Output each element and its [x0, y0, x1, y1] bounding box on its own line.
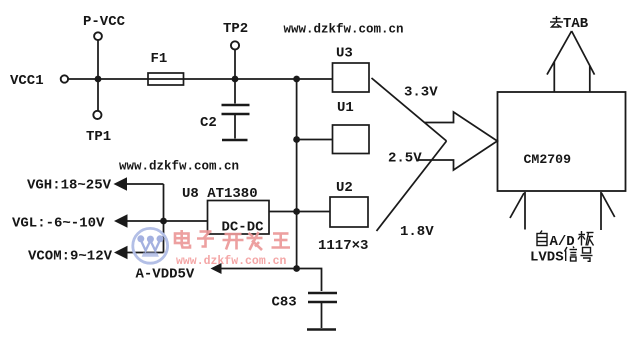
node block arrow to CM2709 [419, 112, 498, 170]
op-amp U8 DC-DC box [208, 201, 270, 235]
wire VGH [127, 183, 164, 185]
wire VCOM [127, 252, 164, 254]
node arrow VGH [114, 177, 128, 191]
node TAB arrow [547, 31, 595, 92]
node VCC1 terminal [61, 75, 68, 82]
svg-text:U3: U3 [336, 46, 353, 62]
wire diagonal 3.3V [372, 78, 447, 141]
node P-VCC terminal [94, 32, 102, 40]
wire A-VDD5V [221, 268, 297, 270]
junction bus U2 [293, 208, 300, 215]
node arrow A-VDD5V [211, 263, 222, 274]
logo ring [133, 228, 168, 263]
junction TP2 [232, 76, 239, 83]
wire main horizontal VCC1 to U3 [68, 78, 333, 80]
junction VGL [160, 218, 167, 225]
wire P-VCC to TP1 vertical [97, 40, 99, 111]
svg-text:U8 AT1380: U8 AT1380 [182, 186, 258, 202]
capacitor C2 [222, 105, 250, 114]
svg-text:TAB: TAB [563, 16, 589, 32]
svg-text:VCOM:9~12V: VCOM:9~12V [28, 249, 113, 265]
svg-text:www.dzkfw.com.cn: www.dzkfw.com.cn [284, 23, 404, 37]
svg-text:P-VCC: P-VCC [83, 14, 126, 30]
node arrow VGL [114, 214, 128, 228]
svg-text:U2: U2 [336, 180, 353, 196]
svg-text:TP2: TP2 [223, 21, 248, 37]
junction bus top [293, 76, 300, 83]
svg-text:LVDS: LVDS [530, 250, 564, 266]
node TP2 terminal [231, 41, 239, 49]
label TAB [550, 16, 589, 32]
wire TP2 drop [234, 49, 236, 79]
svg-text:C2: C2 [200, 115, 217, 131]
node TP1 terminal [93, 111, 101, 119]
svg-text:3.3V: 3.3V [404, 85, 438, 101]
wire VGH to VCOM vertical [163, 184, 165, 253]
svg-text:1.8V: 1.8V [400, 224, 434, 240]
wire bus to U1 [297, 139, 333, 141]
label LVDS信号 [530, 247, 593, 266]
wire C2 top lead [234, 79, 236, 104]
svg-text:F1: F1 [151, 51, 168, 67]
label 自A/D板 [537, 231, 594, 251]
fuse F1 [148, 73, 184, 85]
wire DC-DC to U2 [269, 211, 330, 213]
svg-text:1117×3: 1117×3 [318, 238, 368, 254]
svg-text:www.dzkfw.com.cn: www.dzkfw.com.cn [119, 160, 239, 174]
op-amp U3 box [333, 63, 370, 92]
svg-text:VGL:-6~-10V: VGL:-6~-10V [12, 216, 105, 232]
wire C83 jog [297, 269, 322, 292]
wire vertical bus [296, 79, 298, 269]
wire C83 bottom lead [321, 302, 323, 328]
capacitor C83 [308, 293, 337, 302]
svg-text:C83: C83 [272, 295, 297, 311]
logo W [141, 240, 160, 251]
junction bus U1 [293, 136, 300, 143]
svg-text:www.dzkfw.com.cn: www.dzkfw.com.cn [176, 255, 287, 268]
op-amp U2 box [330, 197, 368, 227]
svg-text:A-VDD5V: A-VDD5V [136, 267, 195, 283]
svg-text:A/D: A/D [550, 234, 575, 250]
svg-text:VCC1: VCC1 [10, 73, 44, 89]
watermark 电子开发网 [175, 230, 290, 250]
svg-text:CM2709: CM2709 [524, 152, 572, 167]
node C2 end bar [222, 139, 248, 142]
node arrow VCOM [114, 246, 128, 260]
wire diagonal 1.8V [377, 141, 447, 231]
svg-text:U1: U1 [337, 100, 354, 116]
svg-text:VGH:18~25V: VGH:18~25V [27, 178, 112, 194]
wire C2 bottom lead [234, 114, 236, 139]
junction bus A-VDD5V [293, 265, 300, 272]
node LVDS arrow left [510, 192, 525, 230]
node C83 end bar [307, 328, 336, 331]
svg-text:TP1: TP1 [86, 129, 111, 145]
node LVDS arrow right [601, 192, 615, 230]
svg-text:2.5V: 2.5V [388, 151, 422, 167]
junction P-VCC [95, 76, 102, 83]
op-amp CM2709 box [498, 92, 626, 191]
wire VGL [127, 220, 208, 222]
op-amp U1 box [333, 125, 370, 154]
